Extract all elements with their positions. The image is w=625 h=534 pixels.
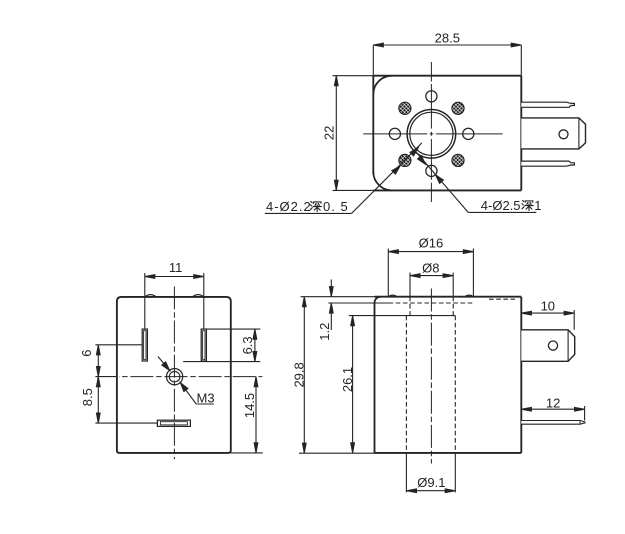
dimension 12 — [521, 406, 584, 421]
dimension 14.5 — [231, 377, 263, 453]
svg-text:4-Ø2.2: 4-Ø2.2 — [266, 199, 312, 214]
armature bore circle outer — [407, 110, 456, 159]
spade terminal (side view) — [521, 330, 574, 362]
dimension 11 — [145, 273, 204, 329]
centerline vertical (bottom view) — [173, 286, 175, 459]
hidden line top-right recess — [489, 298, 515, 300]
coil body outline (side view) — [375, 297, 522, 453]
svg-text:11: 11 — [169, 260, 183, 275]
dimension 26.1 — [352, 316, 354, 453]
terminal slot right — [201, 329, 206, 361]
svg-text:Ø8: Ø8 — [422, 260, 439, 275]
dimension 6 — [95, 345, 142, 423]
hole 2.5 top — [426, 91, 437, 102]
collar bump right on face — [465, 295, 474, 297]
hole 2.5 bottom — [426, 165, 437, 176]
dimension d9.1 — [406, 453, 455, 493]
boss bump left on mounting face — [145, 295, 156, 297]
dimension 8.5 — [95, 422, 157, 424]
corner radius bottom-left — [373, 172, 392, 191]
hole 2.5 left — [389, 128, 400, 139]
blind hole 2.2 bottom-right hatched — [452, 154, 464, 166]
coil body outline (bottom view) — [117, 297, 231, 453]
svg-text:M3: M3 — [197, 390, 215, 405]
coil body outline (top view) — [373, 76, 521, 191]
spade terminal hole — [559, 130, 568, 139]
centerline vertical (top view) — [430, 62, 432, 202]
hidden hole d8 lines — [409, 297, 411, 316]
svg-text:4-Ø2.5: 4-Ø2.5 — [481, 198, 521, 213]
spade hole (side view) — [548, 341, 557, 350]
leader callout 4-d2.2 deep 0.5 — [352, 143, 422, 214]
svg-text:6.3: 6.3 — [240, 336, 255, 354]
flat terminal blade lower (edge view) — [521, 161, 574, 166]
svg-text:1.2: 1.2 — [317, 323, 332, 341]
svg-text:6: 6 — [79, 350, 94, 357]
hole 2.5 right — [463, 128, 474, 139]
hidden hole d9.1 lines — [405, 316, 407, 453]
dimension 22 — [333, 76, 374, 191]
dimension 28.5 — [373, 45, 521, 76]
svg-text:8.5: 8.5 — [80, 388, 95, 406]
svg-text:12: 12 — [546, 396, 560, 411]
dimension d8 — [410, 273, 453, 297]
svg-text:22: 22 — [321, 126, 336, 140]
leader callout 4-d2.5 deep 1 — [417, 153, 469, 213]
internal flange line — [349, 315, 456, 317]
centerline horizontal (bottom view) — [119, 376, 262, 378]
blind hole 2.2 top-right hatched — [452, 102, 464, 114]
M3 thread hole — [167, 369, 183, 385]
dimension 6.3 — [183, 329, 260, 362]
blind hole 2.2 bottom-left hatched — [399, 154, 411, 166]
ground terminal slot bottom — [157, 420, 190, 426]
svg-text:14.5: 14.5 — [242, 393, 257, 418]
collar bump left on face — [388, 295, 397, 297]
centerline vertical (side view) — [430, 289, 432, 464]
svg-text:10: 10 — [541, 299, 555, 314]
terminal slot left — [142, 329, 147, 361]
hidden line collar bottom — [389, 302, 474, 304]
dimension 29.8 — [299, 297, 375, 454]
leader M3 upper — [158, 357, 170, 371]
blind hole 2.2 top-left hatched — [399, 102, 411, 114]
centerline horizontal (top view) — [363, 133, 502, 135]
armature bore circle inner — [410, 112, 453, 155]
leader M3 lower with label — [180, 383, 196, 404]
svg-text:Ø16: Ø16 — [419, 236, 444, 251]
flat terminal blade upper (edge view) — [521, 102, 574, 107]
corner radius top-left (side view) — [375, 297, 381, 303]
dimension 10 — [521, 310, 574, 330]
svg-text:0. 5: 0. 5 — [323, 199, 349, 214]
dimension d16 — [388, 249, 473, 297]
dimension 1.2 — [328, 280, 388, 331]
svg-text:1: 1 — [534, 198, 541, 213]
svg-text:26.1: 26.1 — [340, 367, 355, 392]
svg-text:Ø9.1: Ø9.1 — [417, 475, 445, 490]
corner radius top-left — [373, 76, 392, 95]
boss bump right on mounting face — [192, 295, 203, 297]
svg-text:29.8: 29.8 — [292, 362, 307, 387]
blade terminal (side view, edge) — [521, 421, 585, 425]
svg-text:28.5: 28.5 — [435, 30, 460, 45]
spade terminal middle (flat view) — [521, 118, 585, 149]
